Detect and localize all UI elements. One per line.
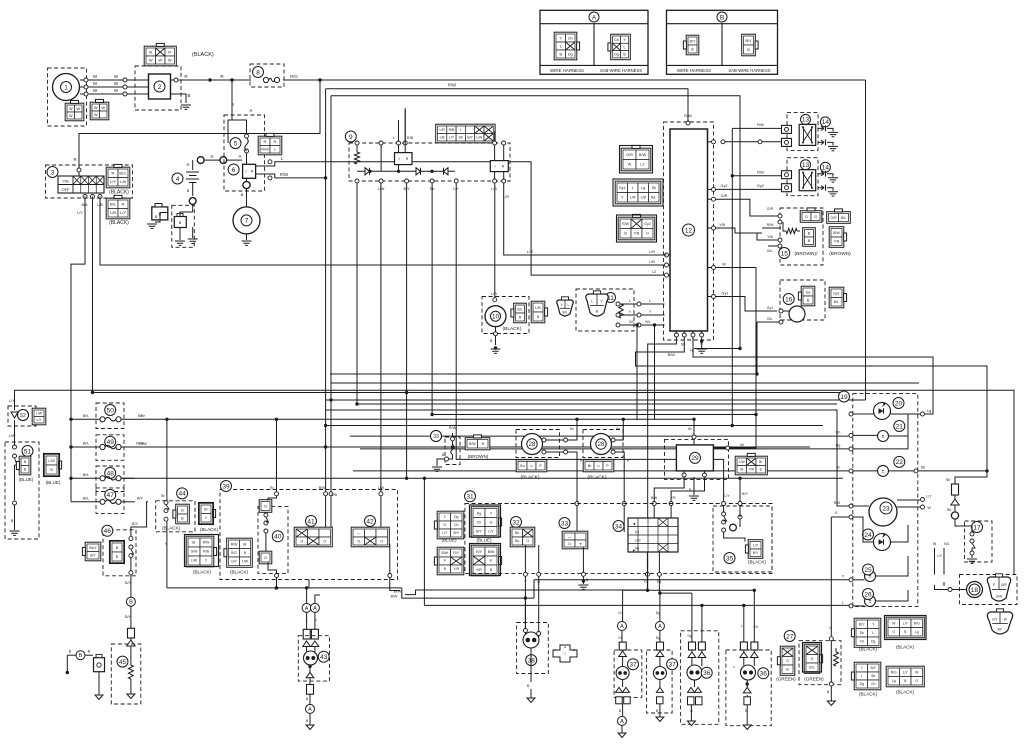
- clutch switch 51 dashed enclosure: [5, 442, 39, 539]
- wire bus W y414: [432, 415, 756, 449]
- svg-text:(BLACK): (BLACK): [109, 220, 129, 226]
- svg-text:34: 34: [615, 523, 623, 530]
- bulb 38 ground: [530, 648, 532, 682]
- svg-text:B: B: [747, 48, 750, 52]
- svg-text:L: L: [591, 299, 593, 303]
- svg-text:SAB-WIRE HARNESS: SAB-WIRE HARNESS: [600, 68, 642, 73]
- svg-text:33: 33: [561, 520, 569, 527]
- connector G G: [800, 211, 822, 223]
- svg-text:B/Y: B/Y: [132, 522, 139, 526]
- meter 21: [878, 431, 889, 442]
- svg-text:R/B: R/B: [757, 170, 764, 175]
- svg-text:B/L: B/L: [944, 542, 949, 546]
- svg-text:L/Y: L/Y: [937, 554, 943, 558]
- svg-text:L2: L2: [652, 270, 656, 274]
- svg-text:L/Y: L/Y: [442, 531, 448, 535]
- front turn 37a dashed enclosure: [614, 650, 642, 697]
- svg-text:►: ►: [632, 549, 636, 553]
- svg-text:L/W: L/W: [476, 135, 483, 139]
- 37a lower diodes: [616, 687, 623, 692]
- ECU pin Y/B: [712, 226, 716, 230]
- switch 33 chain: [451, 437, 455, 441]
- diodes 43: [303, 641, 311, 647]
- fuse 49 dashed enclosure: [96, 435, 124, 461]
- switch 51 pins: [13, 445, 17, 449]
- svg-text:—: —: [357, 531, 361, 535]
- svg-text:B: B: [808, 232, 811, 236]
- connector main switch (BLACK): [106, 167, 130, 188]
- svg-text:Y/B: Y/B: [834, 240, 840, 244]
- wire bus Br meter y471: [353, 470, 849, 472]
- svg-text:Ch: Ch: [836, 431, 841, 435]
- svg-text:L/R: L/R: [527, 250, 533, 254]
- svg-text:B: B: [149, 49, 152, 54]
- svg-text:W: W: [94, 112, 98, 117]
- wire 40 down: [268, 562, 277, 573]
- wire R pair to items 5/6: [228, 120, 232, 143]
- svg-text:▾: ▾: [580, 542, 582, 546]
- wire B/Y 35 pin: [738, 477, 741, 480]
- switch 44 pins: [164, 501, 168, 505]
- svg-text:Ch: Ch: [477, 520, 482, 524]
- svg-text:G: G: [835, 511, 838, 515]
- svg-text:37: 37: [629, 662, 637, 669]
- svg-text:L: L: [393, 136, 395, 140]
- svg-text:(GREEN): (GREEN): [804, 677, 824, 682]
- svg-text:B: B: [720, 14, 724, 21]
- fuse 5: [230, 138, 241, 149]
- svg-text:B: B: [760, 467, 762, 471]
- svg-text:L/Y: L/Y: [753, 543, 759, 547]
- svg-text:B/L: B/L: [809, 666, 814, 670]
- svg-text:(BLACK): (BLACK): [230, 570, 249, 575]
- spark plugs 14 set2: [818, 172, 824, 176]
- svg-text:B: B: [155, 215, 158, 219]
- svg-text:Sb: Sb: [921, 466, 926, 470]
- headlight bulb 28b: [591, 434, 612, 455]
- LED 24: [874, 534, 891, 551]
- wires 34 down Ch Dg: [646, 552, 648, 572]
- ring 18: [967, 582, 983, 598]
- coil set1 left connectors: [782, 125, 792, 133]
- svg-text:Gy: Gy: [806, 290, 811, 294]
- rectifier/regulator 2: [149, 74, 171, 99]
- svg-text:21: 21: [896, 423, 904, 430]
- wires into 15: [762, 227, 781, 229]
- legend A circle: [589, 12, 599, 22]
- 36b boxes: [740, 642, 747, 650]
- wire bus y392: [91, 392, 843, 394]
- svg-text:(BROWN): (BROWN): [829, 251, 851, 257]
- svg-text:ON: ON: [63, 179, 69, 184]
- svg-text:5: 5: [234, 140, 238, 147]
- svg-text:Dg: Dg: [614, 53, 619, 57]
- LED20 wires: [849, 412, 853, 416]
- wire R/W from relay: [256, 174, 326, 178]
- headlight 28a dashed enclosure: [516, 430, 560, 458]
- main fuse 8 dashed enclosure: [250, 64, 284, 87]
- svg-text:45: 45: [119, 659, 127, 666]
- svg-text:2: 2: [158, 84, 162, 91]
- connector 31 blue-right: [471, 507, 499, 538]
- svg-text:Bo: Bo: [515, 531, 519, 535]
- svg-text:B/Y: B/Y: [689, 39, 696, 43]
- speedometer 23: [869, 498, 897, 526]
- ground rectifier: [181, 105, 191, 109]
- sidestand pins: [616, 302, 620, 306]
- speedo wires: [849, 504, 853, 508]
- legend box B frame: [667, 10, 778, 74]
- svg-text:R/G: R/G: [891, 670, 897, 674]
- indicator LED 20: [874, 403, 891, 420]
- svg-text:WIRE HARNESS: WIRE HARNESS: [677, 68, 711, 73]
- wire Br/L switch down-left: [71, 197, 85, 420]
- front turn 37b dashed enclosure: [647, 650, 673, 713]
- svg-text:O: O: [646, 232, 649, 236]
- svg-text:B: B: [559, 52, 562, 56]
- meter 26: [865, 596, 876, 607]
- svg-text:Sb: Sb: [860, 631, 864, 635]
- clutch switch 44 dashed enclosure: [156, 501, 195, 532]
- svg-text:G: G: [814, 215, 817, 219]
- ground starter: [242, 241, 252, 245]
- svg-text:28: 28: [598, 442, 605, 448]
- ECU R/W top pin: [686, 121, 690, 125]
- svg-text:6: 6: [232, 167, 236, 174]
- diode Sb: [954, 495, 956, 499]
- diode45 tail: [130, 638, 132, 640]
- neutral switch 10: [485, 306, 506, 327]
- ECU connector Gy1 L Lg Sb: [615, 181, 661, 204]
- dashed box battery ground: [172, 205, 195, 247]
- sensor 16 dashed enclosure: [780, 280, 825, 320]
- svg-text:Br/L: Br/L: [83, 442, 89, 446]
- switch 40 connector bottom: [259, 551, 272, 564]
- relay 9 input pins: [397, 141, 401, 145]
- svg-text:8: 8: [256, 69, 260, 76]
- wire L/W: [14, 420, 16, 445]
- wire R junction drop to ignition switch circuit: [231, 80, 233, 120]
- switch 33b: [559, 518, 570, 529]
- svg-text:B: B: [241, 192, 244, 197]
- svg-text:(BLACK): (BLACK): [503, 326, 522, 332]
- svg-text:B: B: [11, 519, 14, 523]
- svg-text:Bo/Y: Bo/Y: [90, 546, 98, 550]
- wire resistor9 drop: [356, 183, 358, 404]
- bulb 36b: [741, 665, 756, 680]
- svg-text:Ch: Ch: [753, 625, 758, 629]
- svg-text:29: 29: [691, 455, 699, 462]
- svg-text:B/L: B/L: [767, 317, 772, 321]
- wire R/B coil set 2: [731, 174, 734, 177]
- rectifier 2 dashed enclosure: [135, 66, 181, 110]
- relay unit connector 6p: [436, 124, 495, 143]
- svg-text:Sb: Sb: [871, 674, 875, 678]
- svg-text:R/B: R/B: [407, 136, 414, 140]
- svg-text:(BROWN)/: (BROWN)/: [795, 251, 819, 257]
- svg-text:L/V: L/V: [488, 529, 494, 533]
- svg-text:33: 33: [433, 434, 439, 440]
- wire RW to 33: [436, 446, 453, 448]
- svg-text:(BLUE): (BLUE): [441, 538, 457, 543]
- svg-text:R: R: [73, 157, 76, 162]
- svg-text:L/Y: L/Y: [77, 211, 83, 215]
- svg-text:36: 36: [760, 671, 768, 678]
- headlight 28b dashed enclosure: [583, 430, 623, 458]
- svg-text:L/B: L/B: [110, 210, 116, 215]
- meter 19 dashed enclosure: [853, 394, 918, 607]
- svg-text:OFF: OFF: [62, 187, 71, 192]
- svg-text:R/W: R/W: [319, 486, 326, 490]
- svg-text:B/Y: B/Y: [871, 666, 877, 670]
- svg-text:Sb: Sb: [947, 508, 952, 512]
- svg-text:±: ±: [882, 469, 885, 475]
- legend B connector wire-harness side: [686, 35, 699, 55]
- svg-text:L/Y: L/Y: [903, 621, 909, 625]
- svg-text:B/L: B/L: [629, 320, 634, 324]
- svg-text:46: 46: [104, 528, 112, 535]
- svg-text:I: I: [245, 169, 246, 174]
- svg-text:15: 15: [781, 250, 789, 257]
- 36a boxes: [689, 642, 696, 650]
- svg-text:(BLUE): (BLUE): [476, 538, 492, 543]
- connector square bottom: [307, 685, 314, 695]
- svg-text:B: B: [79, 653, 83, 659]
- svg-text:12: 12: [685, 227, 693, 234]
- chain A front-left: [622, 590, 624, 621]
- relay 29 in: [693, 419, 695, 445]
- svg-text:B: B: [691, 47, 694, 51]
- svg-text:R: R: [187, 162, 190, 167]
- svg-text:B/Y: B/Y: [753, 551, 759, 555]
- wire relay to starter: [246, 179, 248, 208]
- legend A connector sab-wire side: [611, 34, 631, 60]
- svg-text:R: R: [264, 139, 267, 144]
- svg-text:R/W: R/W: [767, 223, 775, 227]
- wire Sb into 17: [955, 519, 972, 532]
- ECU pin W mid: [712, 266, 716, 270]
- battery negative connector: [152, 207, 168, 220]
- wire Y G feeds 38: [524, 596, 527, 599]
- wires 32 33 down Y G: [524, 545, 526, 572]
- svg-text:A: A: [620, 719, 624, 725]
- svg-text:R/W: R/W: [136, 442, 144, 446]
- svg-text:R/W: R/W: [261, 147, 269, 152]
- wire bus y400: [326, 399, 866, 401]
- svg-text:I: I: [398, 156, 399, 161]
- connector 31 blue-left: [437, 511, 464, 539]
- horn connector green1: [780, 646, 795, 675]
- svg-text:◄: ◄: [632, 522, 636, 526]
- svg-text:24: 24: [864, 532, 872, 539]
- battery 4: [172, 173, 183, 184]
- svg-text:Gy1: Gy1: [767, 306, 773, 310]
- svg-text:B: B: [808, 239, 811, 243]
- switch 33 dashed enclosure: [445, 437, 460, 465]
- wire L/B relay to neutral switch: [494, 183, 496, 298]
- svg-text:A: A: [620, 624, 624, 630]
- svg-text:R/W: R/W: [622, 222, 630, 226]
- svg-text:(BLACK): (BLACK): [162, 526, 181, 531]
- svg-text:B/Y: B/Y: [454, 531, 460, 535]
- wires into 18: [952, 589, 967, 591]
- wires L Y: [306, 612, 308, 629]
- svg-text:19: 19: [840, 394, 848, 401]
- relay 9 output pins: [355, 179, 359, 183]
- wire to frame ground: [155, 213, 168, 223]
- svg-text:R/G: R/G: [231, 551, 237, 555]
- svg-text:B/Y: B/Y: [125, 615, 132, 619]
- 37a ground: [622, 704, 624, 716]
- diode block 41: [306, 516, 317, 527]
- svg-text:W: W: [740, 467, 743, 471]
- svg-text:R/W: R/W: [203, 541, 210, 545]
- svg-text:L/Y: L/Y: [9, 399, 15, 403]
- svg-text:28: 28: [529, 442, 536, 448]
- connector G/R B/L: [827, 212, 851, 224]
- svg-text:R: R: [211, 154, 214, 159]
- svg-text:B: B: [129, 600, 133, 606]
- svg-text:W: W: [69, 113, 73, 118]
- svg-text:Y/B: Y/B: [634, 232, 640, 236]
- wire B rectifier to ground: [171, 94, 187, 103]
- svg-text:L: L: [861, 674, 863, 678]
- connector (BLACK) grid2: [227, 538, 253, 567]
- connector (BLACK) grid1: [186, 536, 214, 567]
- svg-text:47: 47: [107, 492, 115, 499]
- svg-text:40: 40: [274, 534, 282, 541]
- switch 40 connector top: [259, 500, 272, 513]
- svg-text:B/W: B/W: [488, 550, 495, 554]
- wire riser x331 R/B: [330, 96, 332, 527]
- svg-text:R/B: R/B: [331, 493, 337, 497]
- svg-text:(L): (L): [635, 530, 639, 534]
- connector 28b Br P: [583, 460, 614, 472]
- svg-text:L/W: L/W: [191, 559, 198, 563]
- svg-text:Bo: Bo: [515, 539, 519, 543]
- main switch output pins: [83, 195, 87, 199]
- wire neutral to ground: [495, 327, 497, 345]
- wire Br feed 28b: [622, 418, 625, 421]
- svg-text:A: A: [308, 707, 312, 713]
- battery negative lead connector 2: [174, 217, 186, 228]
- svg-text:L/B: L/B: [440, 135, 446, 139]
- svg-text:(BLACK): (BLACK): [896, 690, 915, 695]
- svg-text:O: O: [300, 539, 303, 543]
- svg-text:(BLACK): (BLACK): [896, 645, 915, 650]
- svg-text:L/R: L/R: [440, 128, 446, 132]
- horn 27: [784, 631, 795, 642]
- svg-text:A: A: [313, 606, 317, 612]
- svg-text:R/B: R/B: [757, 122, 764, 127]
- 37b lower diode: [656, 687, 663, 692]
- wire P 28b down: [615, 452, 624, 532]
- svg-text:(BLACK): (BLACK): [193, 570, 212, 575]
- svg-text:(BLACK): (BLACK): [200, 527, 219, 532]
- svg-text:G: G: [443, 523, 446, 527]
- front turn 37b box: [657, 642, 664, 650]
- svg-text:R/B: R/B: [449, 128, 455, 132]
- svg-text:(BLACK): (BLACK): [192, 52, 214, 58]
- relay 29 body: [676, 445, 713, 471]
- svg-text:B/L: B/L: [841, 216, 846, 220]
- svg-text:B: B: [490, 339, 493, 343]
- svg-text:Y/R: Y/R: [453, 567, 459, 571]
- diode block 42: [365, 516, 376, 527]
- connector 4p below alternator: [90, 102, 109, 120]
- ignition coil 13 set1 body: [799, 124, 816, 145]
- svg-text:50: 50: [107, 407, 115, 414]
- svg-text:R/G: R/G: [834, 501, 841, 505]
- fuse feed trunk Br/L: [70, 419, 72, 502]
- switch34 cross cells: [658, 518, 668, 527]
- ECU bottom pins: [674, 333, 678, 337]
- svg-text:7: 7: [245, 218, 249, 225]
- svg-text:Y: Y: [559, 36, 562, 40]
- svg-text:Y: Y: [649, 310, 652, 314]
- svg-text:Gy1: Gy1: [833, 292, 839, 296]
- wire Sb bus to right column: [636, 337, 988, 471]
- svg-text:L: L: [842, 601, 844, 605]
- svg-text:L/W: L/W: [242, 559, 249, 563]
- wire battery negative to ground: [180, 212, 193, 216]
- svg-text:G: G: [811, 657, 814, 661]
- joint 39 wires in: [276, 419, 278, 498]
- sensor 17 dashed enclosure: [965, 521, 993, 562]
- svg-text:L/W: L/W: [378, 486, 385, 490]
- svg-text:36: 36: [703, 670, 711, 677]
- tail bulb 43: [304, 651, 318, 665]
- ECU pin Gy1: [712, 295, 716, 299]
- svg-text:R/W: R/W: [231, 542, 238, 546]
- wire L/B pin neutral: [493, 298, 497, 302]
- connector L/W L/Y: [32, 408, 46, 425]
- svg-text:(BLACK): (BLACK): [748, 560, 767, 565]
- svg-text:L/R: L/R: [630, 196, 636, 200]
- svg-text:B/L: B/L: [517, 307, 522, 311]
- svg-text:P: P: [993, 583, 995, 587]
- wire G to meter LED24: [831, 516, 849, 518]
- connector 31 black-right: [471, 545, 499, 576]
- relay 29 W out: [714, 447, 726, 449]
- wire fuse47 B/Y out: [131, 502, 148, 536]
- svg-text:B/L: B/L: [834, 300, 839, 304]
- fuse 50: [100, 417, 105, 422]
- sidestand switch 46 dashed enclosure: [103, 530, 136, 576]
- meter 25 wires: [849, 578, 853, 582]
- ignition coil 13 set1 dashed enclosure: [787, 112, 818, 150]
- svg-text:(BLACK): (BLACK): [859, 692, 878, 697]
- ground ECU B pin: [701, 337, 703, 348]
- svg-text:R: R: [250, 108, 253, 113]
- svg-text:O: O: [568, 542, 571, 546]
- connector Bo/Y B/Y: [85, 542, 101, 561]
- svg-text:L: L: [629, 299, 631, 303]
- wire B/L drop from 11: [636, 325, 638, 420]
- svg-text:Y: Y: [165, 542, 168, 546]
- svg-text:Lg: Lg: [641, 186, 645, 190]
- connector Y L small: [557, 300, 574, 316]
- wire relay LW drop: [380, 183, 382, 527]
- wire bus main y391: [15, 390, 1015, 574]
- svg-text:R/W: R/W: [280, 172, 288, 177]
- bulb 37b: [653, 667, 666, 680]
- svg-text:B: B: [807, 298, 810, 302]
- relay right outputs: [493, 179, 497, 183]
- svg-text:B/L: B/L: [562, 311, 567, 315]
- wire bus y404: [357, 403, 837, 405]
- connector 28a Bo P: [516, 460, 547, 472]
